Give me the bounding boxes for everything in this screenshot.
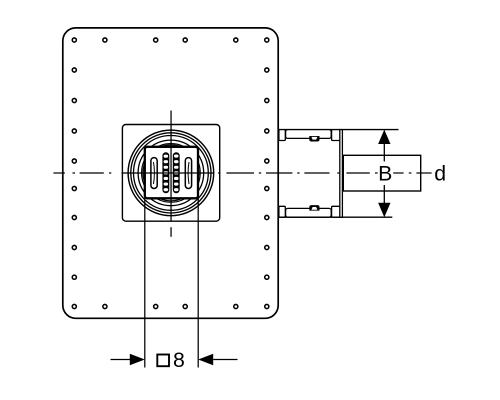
flange bottom-left block — [279, 206, 285, 217]
flange top-right block — [332, 130, 341, 141]
outlet pipe — [343, 155, 420, 191]
vertical centerline — [170, 111, 172, 237]
flange top clip — [309, 136, 319, 142]
bottom dimension arrow right — [213, 359, 237, 361]
flange bottom clip — [309, 205, 319, 211]
bottom row holes — [103, 304, 107, 308]
grate middle-left column — [162, 152, 169, 193]
grate left slot inner arc — [153, 162, 156, 184]
flange bottom-right block — [332, 206, 341, 217]
svg-text:d: d — [434, 162, 446, 186]
concentric drain circles — [128, 130, 214, 216]
extension line right — [197, 198, 199, 368]
drain body outer square — [122, 125, 219, 222]
side flange top edge line + B top extension line — [278, 129, 399, 131]
side flange bottom edge line + B bottom extension line — [278, 216, 392, 218]
grate middle-right column — [173, 152, 180, 193]
svg-text:8: 8 — [173, 348, 185, 372]
grate right outer slot — [185, 158, 191, 189]
grate right slot inner arc — [187, 162, 190, 184]
bottom dimension label square symbol — [157, 355, 169, 367]
horizontal centerline — [53, 172, 431, 174]
flange top-left block — [279, 130, 285, 141]
flange face strip — [340, 130, 343, 218]
grate frame square — [145, 147, 198, 199]
B dimension down arrow — [378, 203, 390, 217]
bottom dimension arrow left — [111, 359, 131, 361]
B dimension up arrow — [378, 130, 390, 144]
svg-text:B: B — [378, 161, 392, 185]
extension line left (from grate to dimension) — [144, 198, 146, 368]
right column holes — [265, 38, 269, 42]
plate screw holes — [72, 38, 269, 309]
left column holes — [72, 38, 76, 42]
top row holes — [103, 38, 107, 42]
flange top rail — [286, 130, 332, 139]
grate left outer slot — [151, 158, 157, 189]
flange bottom rail — [286, 208, 332, 217]
mounting plate — [63, 28, 278, 318]
